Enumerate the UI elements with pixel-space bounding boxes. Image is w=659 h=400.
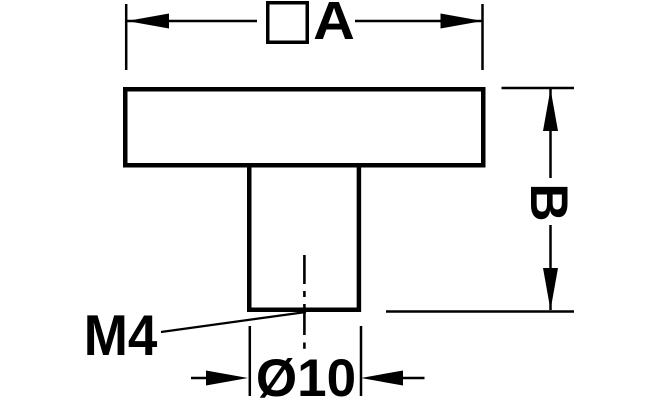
- dimension line B upper segment: [549, 89, 552, 178]
- arrowhead Ø10 left: [206, 371, 248, 386]
- arrowhead B top: [543, 89, 558, 131]
- knob head outline: [125, 89, 483, 165]
- svg-text:Ø10: Ø10: [256, 349, 356, 400]
- dimension line A right segment: [355, 20, 482, 23]
- centerline (stem axis, dash-dot): [303, 255, 306, 349]
- svg-text:A: A: [313, 0, 355, 51]
- arrowhead A left: [127, 14, 169, 29]
- arrowhead A right: [441, 14, 483, 29]
- dimension tail left (Ø10): [191, 377, 208, 380]
- square symbol (square head): [268, 3, 308, 43]
- svg-text:M4: M4: [84, 303, 158, 367]
- arrowhead B bottom: [543, 268, 558, 310]
- svg-text:B: B: [519, 183, 578, 221]
- arrowhead Ø10 right: [361, 371, 403, 386]
- extension line top (dim B): [502, 87, 575, 90]
- dimension line B lower segment: [549, 225, 552, 310]
- extension line right (dim A): [481, 4, 484, 70]
- extension line bottom (dim B): [386, 310, 574, 313]
- extension line right (dim Ø10): [360, 326, 363, 396]
- extension line left (dim Ø10): [249, 326, 252, 396]
- leader line M4: [161, 312, 306, 332]
- extension line left (dim A): [125, 4, 128, 70]
- knob stem outline: [249, 166, 359, 310]
- dimension tail right (Ø10): [403, 377, 425, 380]
- dimension line A left segment: [127, 20, 257, 23]
